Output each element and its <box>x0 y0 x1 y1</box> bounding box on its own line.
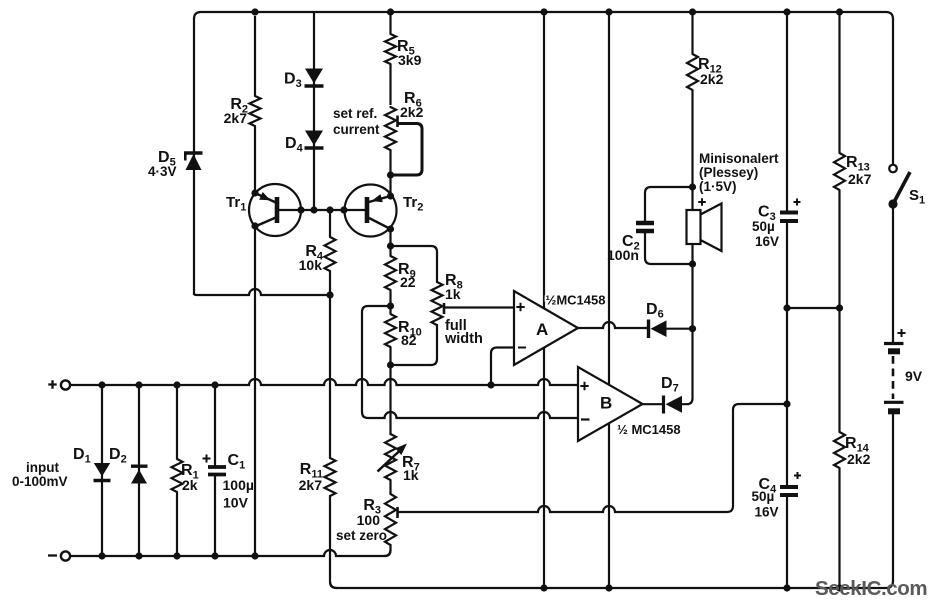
svg-text:½ MC1458: ½ MC1458 <box>617 422 681 437</box>
svg-text:SeekIC.com: SeekIC.com <box>815 577 927 600</box>
junction dot R14 / negative rail <box>836 584 843 591</box>
loudspeaker sounder Minisonalert (Plessey) 1.5V <box>687 151 780 251</box>
capacitor C4 50u 16V <box>752 472 802 520</box>
resistor R11 2k7 <box>299 458 336 496</box>
svg-text:Minisonalert: Minisonalert <box>699 151 779 166</box>
svg-text:0-100mV: 0-100mV <box>12 474 68 489</box>
svg-text:(Plessey): (Plessey) <box>699 165 758 180</box>
junction dot top rail / R2 <box>251 8 258 15</box>
svg-text:2k7: 2k7 <box>848 171 872 187</box>
wire R4 node down to R11 <box>329 295 331 458</box>
wire sounder to D6 node <box>691 244 693 329</box>
wire transistor base rail Tr1-Tr2 <box>277 209 367 211</box>
wire top rail down through C3/C4 column <box>786 12 788 213</box>
svg-text:82: 82 <box>401 332 417 348</box>
op-amp supply wire through B <box>608 12 610 588</box>
junction dot top rail / B supply <box>605 8 612 15</box>
op-amp U1b (B) 1/2 MC1458 <box>578 367 681 441</box>
junction dot top rail / A supply <box>540 8 547 15</box>
junction dot base wire at Tr2 edge <box>340 206 347 213</box>
resistor R5 3k9 <box>385 12 422 68</box>
switch S1 <box>888 165 925 209</box>
wire Tr2 collector to R9 <box>389 229 391 256</box>
svg-text:10k: 10k <box>299 257 323 273</box>
wire 0V input rail (hops over R11 column) <box>70 550 391 556</box>
resistor R14 2k2 <box>834 432 871 588</box>
junction dots on 0V rail <box>98 552 105 559</box>
junction dot R13/R14 node <box>836 304 843 311</box>
junction dot top rail / R5 <box>387 8 394 15</box>
wire R9/R10 node west then down to op-amp B inverting input (hops) <box>362 306 578 418</box>
wire R12 to sounder <box>691 90 693 210</box>
junction dot base wire / D4 column <box>310 206 317 213</box>
wire R5 to R6 <box>389 64 391 105</box>
resistor R9 22 <box>385 256 416 290</box>
svg-text:1k: 1k <box>445 286 461 302</box>
wire branch from R10 bottom east to R8 bottom <box>391 325 438 365</box>
diode D7 <box>661 328 693 414</box>
wire op-amp A output to D6 (hops over B supply wire) <box>578 322 649 328</box>
capacitor C1 100u 10V <box>203 385 254 556</box>
junction dot top rail / C3 <box>783 8 790 15</box>
junction dot B supply / negative rail <box>605 584 612 591</box>
svg-text:set zero: set zero <box>336 528 387 543</box>
junction dot C2/sounder top <box>689 183 696 190</box>
svg-text:4·3V: 4·3V <box>148 164 177 179</box>
transistor Tr2 <box>340 185 423 237</box>
junction dot D6 / alarm column <box>689 325 696 332</box>
wire R11 bottom to negative supply rail <box>330 496 337 588</box>
junction dot op-amp A inverting input to + rail <box>487 381 494 388</box>
svg-text:set ref.: set ref. <box>333 106 377 121</box>
wire switch to battery <box>892 205 894 342</box>
svg-text:A: A <box>536 320 548 339</box>
svg-text:50µ: 50µ <box>752 219 775 234</box>
junction dot C3 column / R13 link <box>783 304 790 311</box>
junction dot A supply / negative rail <box>540 584 547 591</box>
capacitor C2 100n <box>607 187 693 264</box>
diode D4 <box>285 131 324 155</box>
resistor R13 2k7 <box>834 12 872 432</box>
svg-text:B: B <box>600 394 612 413</box>
junction dot R10 bottom node <box>387 361 394 368</box>
resistor R2 2k7 <box>224 16 261 193</box>
svg-text:(1·5V): (1·5V) <box>699 179 737 194</box>
svg-text:22: 22 <box>400 274 416 290</box>
svg-text:2k2: 2k2 <box>400 104 424 120</box>
wire Tr1 collector down to 0V input rail <box>254 226 256 556</box>
resistor R1 2k <box>172 385 199 556</box>
junction dot collector node to R8 branch <box>387 242 394 249</box>
svg-text:50µ: 50µ <box>752 489 775 504</box>
diode D1 <box>73 385 111 556</box>
svg-text:current: current <box>333 122 380 137</box>
preset resistor R6 2k2 (set ref. current) <box>385 90 424 196</box>
wire negative supply rail <box>330 581 893 588</box>
wire R3 bottom to 0V input rail <box>385 545 391 556</box>
wire R10 bottom lead <box>389 347 391 365</box>
junction dot Tr1 collector wire <box>251 222 258 229</box>
svg-text:9V: 9V <box>905 368 923 384</box>
junction dot Tr1 emitter / R2 wire <box>251 189 258 196</box>
wire from D5 anode east to R4 bottom node (hops over Tr1 collector wire) <box>194 289 330 295</box>
wire R7 to R3 <box>389 480 391 494</box>
transistor Tr1 <box>226 184 301 236</box>
resistor R4 10k <box>299 210 336 295</box>
wire battery negative to bottom rail <box>892 414 894 583</box>
+ input terminal <box>61 380 70 389</box>
junction dot R9/R10 node <box>387 302 394 309</box>
junction dot R4 bottom / D5 wire <box>326 291 333 298</box>
svg-text:width: width <box>444 331 483 347</box>
svg-text:10V: 10V <box>223 495 249 511</box>
svg-text:2k2: 2k2 <box>700 71 724 87</box>
junction dot top rail / R13 <box>836 8 843 15</box>
junction dot D7/R3 wiper node on column <box>783 400 790 407</box>
svg-text:100n: 100n <box>607 247 639 263</box>
variable resistor R7 1k <box>378 434 420 483</box>
wire R3 wiper east to D7/C4 node (hops over op-amp supply rails) <box>398 404 788 512</box>
junction dot R6 wiper loop <box>387 171 394 178</box>
battery 9V <box>884 329 923 411</box>
svg-text:3k9: 3k9 <box>398 52 422 68</box>
svg-text:2k: 2k <box>182 477 198 493</box>
svg-text:100: 100 <box>357 512 381 528</box>
resistor R12 2k2 <box>687 12 724 90</box>
svg-text:100µ: 100µ <box>223 477 254 493</box>
wire left branch from top rail down to D5 <box>193 18 195 295</box>
diode D3 <box>284 69 324 91</box>
diode D2 <box>109 385 148 556</box>
preset resistor R3 100 (set zero) <box>336 494 398 545</box>
zener diode D5 4.3V <box>148 149 203 179</box>
diode D6 <box>646 301 693 338</box>
junction dot Tr2 emitter <box>387 192 394 199</box>
junction dot top rail / R12 <box>689 8 696 15</box>
junction dots on + input rail <box>98 381 105 388</box>
wire top positive supply rail <box>194 12 893 19</box>
preset resistor R8 1k (full width) <box>432 272 515 347</box>
wire branch from Tr2 collector node east to R8 top <box>391 246 438 282</box>
wire from top rail through D3,D4 to transistor base node <box>313 12 315 210</box>
svg-text:16V: 16V <box>755 505 779 520</box>
op-amp V+ supply wire through A <box>543 12 545 588</box>
- input terminal <box>61 551 70 560</box>
svg-text:16V: 16V <box>755 234 779 249</box>
wire + input rail (hops over crossing wires) <box>70 379 578 385</box>
junction dot base wire / R4 column <box>326 206 333 213</box>
op-amp U1a (A) 1/2 MC1458 <box>514 291 605 365</box>
svg-text:input: input <box>26 460 59 475</box>
junction dot C4 / negative rail <box>783 584 790 591</box>
wire R9 bottom to R10 top <box>389 290 391 314</box>
svg-text:2k7: 2k7 <box>224 110 248 126</box>
wire top rail to switch <box>892 18 894 165</box>
resistor R10 82 <box>385 314 422 348</box>
capacitor C3 50u 16V <box>752 199 801 250</box>
wire R10 bottom down to R7 <box>389 365 391 435</box>
wire op-amp B output to D7 <box>643 403 664 405</box>
svg-text:2k2: 2k2 <box>847 451 871 467</box>
junction dot base wire at Tr1 edge <box>297 206 304 213</box>
junction dot C2/sounder bottom <box>689 260 696 267</box>
svg-text:½MC1458: ½MC1458 <box>546 293 606 308</box>
svg-text:1k: 1k <box>403 467 419 483</box>
wire link to R13/R14 column <box>787 307 840 309</box>
junction dot Tr2 collector <box>387 225 394 232</box>
svg-text:2k7: 2k7 <box>299 477 323 493</box>
wire op-amp A inverting input <box>491 348 514 386</box>
